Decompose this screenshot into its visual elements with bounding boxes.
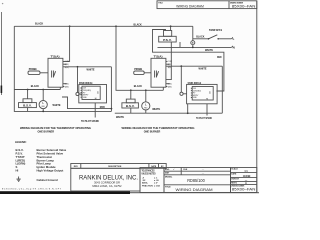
svg-text:L: L: [233, 37, 235, 41]
svg-text:WIRING DIAGRAM: WIRING DIAGRAM: [176, 187, 213, 192]
svg-text:UNLESS NOTED: UNLESS NOTED: [142, 172, 156, 175]
svg-text:TITLE: TITLE: [158, 2, 163, 4]
svg-text:REV'D: REV'D: [231, 182, 237, 184]
svg-text:TO PILOT SPARK: TO PILOT SPARK: [196, 116, 212, 120]
svg-text:MOD: MOD: [100, 105, 105, 109]
svg-text:BLACK: BLACK: [196, 34, 205, 38]
svg-text:TITLE: TITLE: [165, 187, 171, 189]
svg-text:85X00S00_wha_8apr99.CH/LO/K.N.: 85X00S00_wha_8apr99.CH/LO/K.N.OPT: [2, 188, 62, 190]
svg-text:ANGL: ANGL: [142, 182, 149, 185]
svg-text:S: S: [97, 90, 99, 94]
svg-text:N: N: [233, 46, 235, 50]
svg-text:S: S: [209, 91, 211, 95]
svg-text:RD85/100: RD85/100: [187, 178, 205, 183]
svg-text:ENG: ENG: [165, 169, 170, 171]
svg-text:REV: REV: [74, 166, 79, 168]
svg-text:WHITE: WHITE: [199, 67, 207, 71]
svg-text:WHITE: WHITE: [87, 68, 95, 72]
svg-text:WHITE: WHITE: [116, 115, 124, 119]
svg-text:POWER SWITCH: POWER SWITCH: [209, 28, 222, 32]
svg-text:DATE: DATE: [231, 172, 237, 175]
svg-text:3043 CORRIDOR DR: 3043 CORRIDOR DR: [94, 180, 120, 184]
svg-text:BLACK: BLACK: [31, 84, 40, 88]
svg-text:11/2/99: 11/2/99: [243, 176, 251, 178]
svg-text:DESCRIPTION: DESCRIPTION: [108, 166, 121, 168]
svg-text:PROBE: PROBE: [134, 67, 142, 71]
svg-text:DWN BY: DWN BY: [231, 179, 239, 181]
svg-text:RED: RED: [217, 55, 222, 59]
svg-text:ONE BURNER: ONE BURNER: [38, 130, 55, 134]
svg-text:± 1/32: ± 1/32: [154, 185, 161, 187]
svg-text:PROBE: PROBE: [29, 67, 37, 71]
svg-text:BLACK: BLACK: [134, 22, 143, 26]
svg-text:B.S.V.: B.S.V.: [23, 104, 32, 108]
svg-text:High Voltage Output: High Voltage Output: [37, 169, 64, 173]
svg-text:1(M): 1(M): [65, 86, 69, 88]
svg-text:P.S.V.: P.S.V.: [163, 38, 172, 42]
svg-text:WHITE: WHITE: [152, 107, 160, 111]
svg-text:TO PILOT SPARK: TO PILOT SPARK: [81, 119, 99, 123]
svg-text:CHK: CHK: [183, 169, 188, 171]
svg-text:LEGEND:: LEGEND:: [15, 140, 27, 144]
svg-text:B.S.V.: B.S.V.: [126, 104, 135, 108]
svg-text:WHITE: WHITE: [205, 48, 213, 52]
svg-text:MODEL: MODEL: [165, 177, 173, 179]
svg-text:RANKIN DELUX, INC.: RANKIN DELUX, INC.: [79, 174, 138, 181]
svg-text:BLACK: BLACK: [35, 22, 44, 26]
svg-text:3(M): 3(M): [65, 67, 69, 69]
svg-text:MIRA LOMA, CA, 91752: MIRA LOMA, CA, 91752: [92, 184, 122, 188]
svg-text:Cabinet Ground: Cabinet Ground: [37, 178, 58, 182]
svg-text:85X00–FAN: 85X00–FAN: [232, 187, 256, 191]
svg-text:FRACTION: FRACTION: [142, 184, 153, 187]
svg-text:HI: HI: [16, 169, 19, 173]
svg-text:85X00–FAN: 85X00–FAN: [232, 4, 256, 8]
svg-text:WIRING DIAGRAM: WIRING DIAGRAM: [176, 4, 204, 8]
svg-text:WIRING DIAGRAM FOR THE THERMOS: WIRING DIAGRAM FOR THE THERMOSTAT OPERAT…: [20, 126, 91, 130]
svg-text:BLACK: BLACK: [134, 84, 143, 88]
svg-text:COM: COM: [65, 61, 70, 63]
svg-text:ONE BURNER: ONE BURNER: [144, 130, 161, 134]
svg-text:1(M): 1(M): [168, 86, 172, 88]
svg-text:SCALE: SCALE: [231, 168, 238, 171]
svg-text:WHITE: WHITE: [53, 103, 61, 107]
